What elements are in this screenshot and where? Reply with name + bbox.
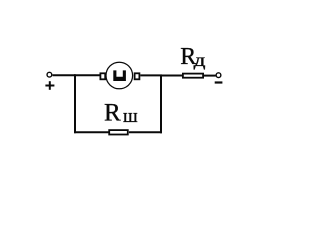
svg-text:д: д bbox=[194, 50, 206, 71]
label Rд bbox=[180, 44, 206, 71]
wire bottom from left corner to resistor Rsh bbox=[74, 131, 109, 133]
wire shunt branch left vertical bbox=[74, 74, 76, 133]
wire from left junction to meter left terminal bbox=[74, 74, 100, 76]
label Rш bbox=[104, 100, 138, 128]
resistor Rд bbox=[183, 74, 203, 78]
svg-text:R: R bbox=[104, 100, 121, 127]
resistor Rш bbox=[109, 130, 128, 134]
wire from + terminal to left junction bbox=[53, 74, 76, 76]
terminal - (right) bbox=[216, 73, 221, 78]
svg-text:ш: ш bbox=[123, 106, 138, 127]
wire shunt branch right vertical bbox=[160, 75, 162, 134]
meter terminal pin (right square) bbox=[135, 73, 140, 79]
wire bottom from resistor Rsh to right corner bbox=[129, 131, 162, 133]
wire from right junction to resistor Rd bbox=[160, 75, 183, 77]
wire from resistor Rd to - terminal bbox=[204, 75, 216, 77]
label + bbox=[45, 81, 54, 90]
terminal + (left) bbox=[47, 72, 52, 77]
wire from meter right terminal to right junction bbox=[140, 74, 162, 76]
meter moving-frame symbol bbox=[113, 70, 126, 81]
meter terminal pin (left square) bbox=[100, 73, 105, 79]
label - bbox=[215, 81, 223, 83]
meter PA (galvanometer body) bbox=[106, 62, 133, 89]
